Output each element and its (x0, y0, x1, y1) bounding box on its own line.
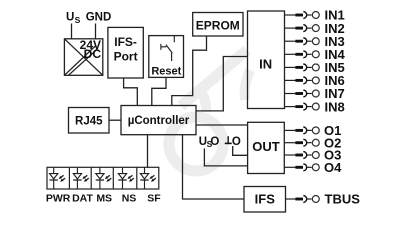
svg-text:IN8: IN8 (325, 99, 345, 114)
svg-text:IN: IN (259, 57, 272, 72)
IFS box (244, 187, 286, 213)
output terminal O4 (284, 160, 342, 175)
ground symbol with terminal O (225, 136, 241, 148)
watermark (169, 50, 250, 171)
LED NS (118, 167, 134, 189)
wire microcontroller to IN (196, 57, 248, 111)
input terminal IN3 (285, 34, 345, 49)
svg-text:IFS: IFS (255, 191, 276, 206)
wire Reset to microcontroller (152, 77, 166, 105)
output terminal O3 (284, 148, 341, 163)
LED MS (96, 167, 112, 189)
svg-text:SF: SF (147, 193, 161, 205)
svg-text:O: O (210, 136, 219, 148)
OUT box (248, 122, 285, 173)
wire microcontroller to OUT (196, 124, 248, 126)
EPROM box (193, 13, 243, 37)
input terminal IN6 (285, 73, 345, 88)
svg-text:OUT: OUT (252, 139, 280, 154)
input terminal IN2 (285, 21, 345, 36)
input terminal IN4 (285, 47, 346, 62)
wire US to OUT (204, 148, 247, 166)
svg-text:DAT: DAT (72, 193, 93, 205)
svg-text:PWR: PWR (46, 193, 71, 205)
svg-text:NS: NS (122, 193, 137, 205)
wire EPROM to microcontroller (172, 36, 207, 106)
input terminal IN8 (285, 99, 345, 114)
LED indicator block (47, 167, 159, 189)
svg-text:EPROM: EPROM (196, 19, 240, 33)
IFS-Port box (108, 27, 143, 78)
output terminal O2 (284, 135, 341, 150)
wire microcontroller to IFS (183, 135, 245, 199)
svg-text:GND: GND (86, 12, 112, 24)
svg-text:U: U (66, 12, 74, 24)
svg-text:RJ45: RJ45 (75, 115, 103, 127)
label US (66, 12, 81, 26)
svg-text:DC: DC (84, 47, 102, 61)
microcontroller U1 (121, 106, 196, 135)
svg-text:MS: MS (96, 193, 112, 205)
IN box (248, 11, 285, 109)
bus terminal TBUS (286, 192, 361, 207)
RJ45 box (69, 108, 110, 134)
wire microcontroller to LED SF (147, 135, 149, 168)
wire RJ45 to microcontroller (109, 119, 121, 121)
svg-text:TBUS: TBUS (325, 192, 361, 207)
wire US to power supply (71, 24, 73, 39)
svg-text:IFS-: IFS- (114, 35, 137, 49)
LED DAT (73, 167, 89, 189)
output terminal O1 (284, 123, 341, 138)
LED SF (140, 167, 156, 189)
input terminal IN7 (285, 86, 345, 101)
svg-text:µController: µController (128, 115, 190, 127)
svg-text:O4: O4 (324, 160, 342, 175)
wire IFS-Port to microcontroller (124, 78, 138, 106)
svg-text:Reset: Reset (151, 66, 181, 78)
push-button symbol S1 (161, 36, 174, 61)
power supply 24V DC (64, 38, 102, 75)
wire ground to OUT (233, 146, 248, 155)
svg-text:Port: Port (114, 49, 138, 63)
input terminal IN1 (285, 8, 345, 23)
wire GND to power supply (95, 24, 97, 39)
label US O (199, 136, 220, 149)
svg-text:S: S (75, 15, 81, 25)
Reset box (149, 36, 184, 78)
LED PWR (50, 167, 66, 189)
input terminal IN5 (285, 60, 345, 75)
